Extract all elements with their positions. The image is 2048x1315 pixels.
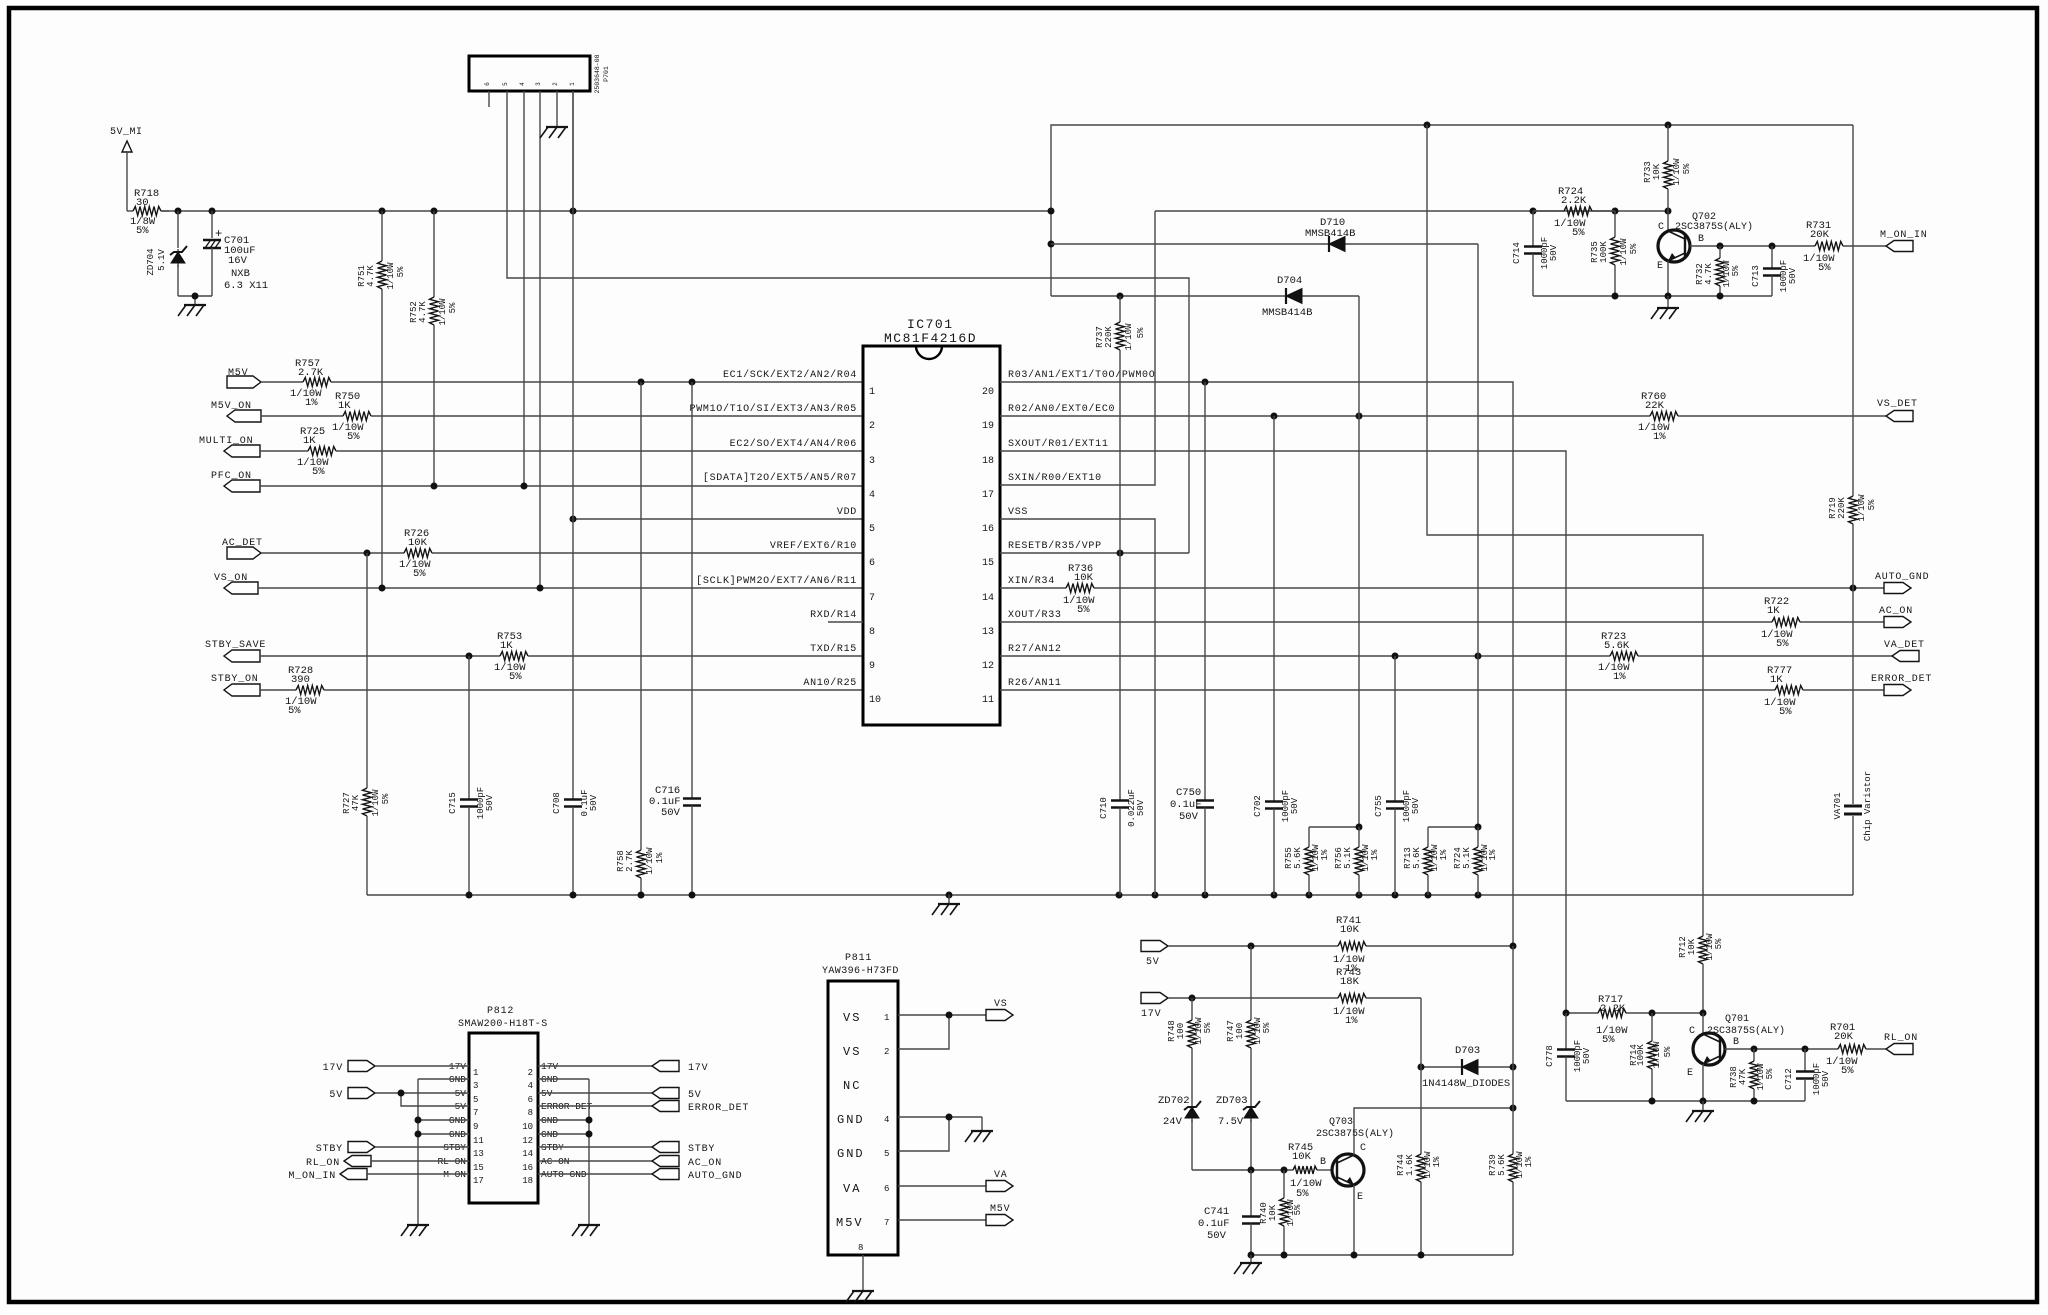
wire P812 5V jog pins 5/7 [401,1093,469,1106]
resistor R735 100K 1/10W 5% [1590,211,1639,296]
ground P812 left [407,1224,429,1226]
svg-text:100K: 100K [1636,1044,1646,1066]
junction 5V bus / C701 [209,208,216,215]
svg-text:10: 10 [522,1122,533,1132]
zener ZD702 24V [1158,1095,1201,1170]
net flag ERROR_DET [1871,674,1932,696]
svg-text:30: 30 [136,197,149,209]
wire top supply bus [1051,125,1853,296]
svg-text:18: 18 [982,456,994,467]
junction VS pins [946,1012,953,1019]
resistor R717 2.2K 1/10W 5% [1596,994,1628,1046]
net flag AC_ON [1879,606,1913,628]
wire Q702 emitter [1667,261,1669,296]
net flag VS_ON [214,573,258,594]
net flag 17V P812 right [538,1061,708,1075]
svg-text:R02/AN0/EXT0/EC0: R02/AN0/EXT0/EC0 [1008,403,1115,415]
svg-text:R27/AN12: R27/AN12 [1008,643,1062,655]
wire Q701 collector supply branch [1427,125,1703,935]
svg-text:VA_DET: VA_DET [1884,640,1925,651]
svg-text:5%: 5% [1136,327,1146,338]
wire P701 pin3 to VS_ON net [539,91,541,588]
junction AC_DET / R727 [364,550,371,557]
junction GND bus x1428 [1425,892,1432,899]
svg-text:50V: 50V [1136,799,1146,816]
resistor R726 10K 1/10W 5% [261,528,863,580]
svg-text:C: C [1689,1026,1695,1037]
svg-text:1/10W: 1/10W [1124,323,1134,351]
svg-text:50V: 50V [1549,244,1559,261]
svg-text:EC2/SO/EXT4/AN4/R06: EC2/SO/EXT4/AN4/R06 [730,438,857,450]
svg-text:VS: VS [994,999,1008,1010]
svg-text:5%: 5% [347,431,360,443]
svg-text:PWM1O/T1O/SI/EXT3/AN3/R05: PWM1O/T1O/SI/EXT3/AN3/R05 [689,403,857,415]
capacitor C702 1000pF 50V [1253,416,1300,895]
svg-text:19: 19 [982,421,994,432]
svg-text:50V: 50V [589,794,599,811]
svg-text:2.7K: 2.7K [625,850,635,872]
svg-text:SXOUT/R01/EXT11: SXOUT/R01/EXT11 [1008,438,1109,450]
svg-text:10K: 10K [1074,572,1094,584]
svg-text:5V: 5V [1146,957,1160,968]
resistor R701 20K 1/10W 5% [1826,1022,1886,1077]
svg-text:47K: 47K [351,794,361,811]
junction pin20 / C750 [1202,379,1209,386]
net flag MULTI_ON [199,436,260,457]
junction left GND pin9 [415,1117,422,1124]
svg-text:5%: 5% [1714,938,1724,949]
svg-text:10K: 10K [1687,938,1697,955]
svg-text:M_ON_IN: M_ON_IN [288,1171,336,1182]
svg-text:47K: 47K [1738,1068,1748,1085]
svg-text:1/10W: 1/10W [1857,494,1867,522]
svg-text:RXD/R14: RXD/R14 [810,609,857,621]
capacitor C755 1000pF 50V [1374,656,1421,895]
wire Q702 collector net [1155,210,1668,212]
svg-text:VREF/EXT6/R10: VREF/EXT6/R10 [770,540,857,552]
svg-text:20K: 20K [1834,1031,1854,1043]
junction GND bus x949 [946,892,953,899]
svg-text:100K: 100K [1599,241,1609,263]
resistor R755 5.6K 1/10W 1% [1284,827,1330,895]
wire P812 right GND pins 4/10/12 [538,1079,589,1224]
net flag RL_ON [1884,1033,1918,1055]
svg-text:AC_ON: AC_ON [1879,606,1913,617]
net flag VA [898,1170,1013,1192]
svg-text:Chip Varistor: Chip Varistor [1863,771,1873,841]
svg-text:VSS: VSS [1008,507,1028,518]
junction 5V bus / ZD704 [175,208,182,215]
svg-text:8: 8 [858,1243,863,1253]
wire IC701 pin8 RXD stub [828,621,863,623]
svg-text:NXB: NXB [231,268,250,280]
svg-text:5%: 5% [1731,265,1741,276]
resistor R738 47K 1/10W 5% [1729,1049,1775,1101]
svg-text:50V: 50V [1788,267,1798,284]
junction 17V / R748 column [1189,995,1196,1002]
svg-text:XIN/R34: XIN/R34 [1008,575,1055,587]
svg-text:220K: 220K [1104,326,1114,348]
resistor R713 5.6K 1/10W 1% [1403,827,1449,895]
wire P701 pin6 stub [488,91,490,107]
resistor R724 5.1K 1/10W 1% [1453,827,1498,895]
svg-text:E: E [1657,261,1663,272]
svg-text:MC81F4216D: MC81F4216D [884,331,977,346]
junction top bus / R733 [1665,122,1672,129]
net flag STBY P812 right [538,1142,715,1156]
junction Q702 collector / R733 [1665,208,1672,215]
svg-text:12: 12 [522,1136,533,1146]
junction GND bus x1274 [1271,892,1278,899]
connector P812 SMAW200-H18T-S [458,1006,548,1203]
svg-text:C714: C714 [1512,242,1522,264]
svg-text:12: 12 [982,661,994,672]
capacitor C701 100uF 16V [203,211,268,296]
svg-text:1/10W: 1/10W [1619,238,1629,266]
svg-text:10K: 10K [1268,1204,1278,1221]
resistor R756 5.1K 1/10W 1% [1334,827,1380,895]
svg-text:4.7K: 4.7K [1704,263,1714,285]
junction 5V jog [398,1090,405,1097]
svg-text:2.2K: 2.2K [1561,195,1587,207]
svg-text:16: 16 [982,524,994,535]
junction VS_ON / R751 [379,585,386,592]
capacitor C708 0.1uF 50V [552,91,599,895]
resistor R732 4.7K 1/10W 5% [1695,246,1741,296]
svg-text:5.1K: 5.1K [1343,847,1353,869]
junction R741 / D703 column [1510,943,1517,950]
wire Q703 base row [1192,1169,1293,1171]
svg-text:ZD702: ZD702 [1158,1095,1190,1107]
svg-text:C702: C702 [1253,795,1263,817]
svg-text:[SDATA]T2O/EXT5/AN5/R07: [SDATA]T2O/EXT5/AN5/R07 [703,472,857,484]
connector P811 YAW396-H73FD [822,953,899,1255]
junction rail Q702 E [1665,293,1672,300]
wire R755/R756 bracket [1309,826,1359,828]
svg-text:5%: 5% [1841,1065,1854,1077]
net flag PFC_ON [211,471,260,492]
svg-text:E: E [1687,1068,1693,1079]
wire 5V bus [161,210,1051,212]
ground Q701 [1692,1110,1714,1112]
junction VDD / C708 column [570,516,577,523]
svg-text:1%: 1% [1345,1015,1358,1027]
ground at P701 pin2 [546,126,568,128]
junction M5V row x641 [638,379,645,386]
wire P701 pin4 to PFC_ON net [523,91,525,486]
svg-text:17V: 17V [323,1063,343,1074]
svg-text:9: 9 [473,1122,478,1132]
svg-text:M5V: M5V [990,1204,1010,1215]
svg-text:1%: 1% [1439,849,1449,860]
svg-text:R03/AN1/EXT1/T0O/PWM0O: R03/AN1/EXT1/T0O/PWM0O [1008,369,1155,381]
svg-text:15: 15 [982,558,994,569]
resistor R744 1.6K 1/10W 1% [1396,1067,1442,1255]
svg-text:5%: 5% [1779,706,1792,718]
net flag AUTO_GND P812 right [538,1169,742,1183]
svg-text:1/10W: 1/10W [1672,158,1682,186]
svg-text:RL_ON: RL_ON [1884,1033,1918,1044]
net flag 5V P812 left [329,1088,469,1102]
svg-text:17V: 17V [1141,1009,1161,1020]
svg-text:1: 1 [869,387,875,398]
junction rail Q703 E [1351,1252,1358,1259]
svg-text:5.6K: 5.6K [1293,847,1303,869]
svg-text:RL_ON: RL_ON [306,1158,340,1169]
junction base row / R740 [1281,1167,1288,1174]
capacitor C714 1000pF 50V [1512,211,1559,296]
svg-text:5%: 5% [1077,604,1090,616]
junction D710 column / bracket [1475,824,1482,831]
wire pin20 PWM0O row [1000,382,1513,946]
junction R738 top [1751,1046,1758,1053]
svg-text:1/10W: 1/10W [645,847,655,875]
svg-text:Q701: Q701 [1725,1014,1749,1025]
svg-text:20K: 20K [1810,229,1830,241]
svg-text:50V: 50V [1411,797,1421,814]
junction PFC_ON / P701 pin4 [521,483,528,490]
svg-text:20: 20 [982,387,994,398]
svg-text:NC: NC [843,1079,861,1093]
svg-text:B: B [1320,1157,1326,1168]
svg-text:C778: C778 [1545,1045,1555,1067]
svg-text:5%: 5% [1203,1022,1213,1033]
resistor R718 30 1/8W 5% [127,188,169,237]
resistor R777 1K 1/10W 5% [1000,665,1884,718]
zener ZD703 7.5V [1216,1095,1260,1170]
svg-text:SMAW200-H18T-S: SMAW200-H18T-S [458,1019,548,1030]
junction D704 column / bracket [1356,824,1363,831]
svg-text:1%: 1% [1488,849,1498,860]
svg-text:1%: 1% [1524,1156,1534,1167]
wire Q701 emitter rail [1566,1100,1805,1102]
svg-text:AC_ON: AC_ON [688,1158,722,1169]
svg-text:13: 13 [982,627,994,638]
resistor R751 4.7K 1/10W 5% [357,211,406,588]
svg-text:4.7K: 4.7K [366,265,376,287]
wire Q703 collector [1354,1108,1515,1155]
ground below C701 [184,304,206,306]
svg-text:P812: P812 [487,1006,514,1017]
resistor R719 220K 1/10W 5% [1828,125,1877,588]
net flag STBY_SAVE [205,640,266,662]
svg-text:P811: P811 [845,953,872,964]
wire Q703 emitter [1353,1185,1355,1255]
capacitor C750 0.1uF 50V [1170,382,1214,895]
ground on GND bus [938,903,960,905]
transistor Q702 2SC3875S(ALY) [1657,211,1753,272]
zener ZD704 5.1V [146,211,187,296]
junction M5V row x692 [689,379,696,386]
resistor R750 1K 1/10W 5% [261,391,863,443]
svg-text:5%: 5% [1682,163,1692,174]
svg-text:1N4148W_DIODES: 1N4148W_DIODES [1422,1078,1510,1090]
svg-text:10K: 10K [1292,1151,1312,1163]
wire R713/R724 bracket [1428,826,1478,828]
resistor R739 5.6K 1/10W 1% [1488,946,1534,1255]
wire P811 VS pins 1/2 [898,1015,986,1049]
junction right GND pin10 [586,1117,593,1124]
capacitor C715 1000pF 50V [448,656,495,895]
svg-text:5V: 5V [688,1090,702,1101]
svg-text:C: C [1658,222,1664,233]
svg-text:5%: 5% [288,705,301,717]
wire ground stub Q701 [1702,1101,1704,1110]
svg-text:3: 3 [869,456,875,467]
svg-text:2.7K: 2.7K [298,367,324,379]
svg-text:5%: 5% [413,568,426,580]
svg-text:2.2K: 2.2K [1600,1003,1626,1015]
svg-text:100: 100 [1235,1023,1245,1039]
junction GND bus x1359 [1356,892,1363,899]
svg-text:5%: 5% [1572,227,1585,239]
wire P811 pin8 to ground [862,1255,864,1290]
svg-text:1K: 1K [1770,674,1783,686]
junction 5V bus / R751 [379,208,386,215]
junction R732 top [1717,243,1724,250]
svg-text:3: 3 [535,82,542,86]
junction PFC_ON / R752 [431,483,438,490]
svg-text:5%: 5% [1629,243,1639,254]
resistor R714 100K 1/10W 5% [1629,1013,1673,1101]
svg-text:7: 7 [884,1218,889,1228]
junction pin12 / C755 [1392,653,1399,660]
svg-text:TXD/R15: TXD/R15 [810,643,857,655]
svg-text:100: 100 [1176,1023,1186,1039]
junction GND bus x1155 [1152,892,1159,899]
svg-text:C755: C755 [1374,795,1384,817]
resistor R758 2.7K 1/10W 1% [616,847,665,895]
wire M5V row drop x641 [640,382,642,850]
svg-text:VDD: VDD [837,507,857,518]
wire Q702 ground stub [1667,296,1669,307]
svg-text:7: 7 [869,593,875,604]
capacitor C713 1000pF 50V [1751,246,1798,296]
wire Q701 base row [1725,1048,1838,1050]
svg-text:6: 6 [528,1095,533,1105]
junction C713 top [1769,243,1776,250]
wire bottom rail Q703 [1251,1254,1513,1256]
junction pin19 / D704 column [1356,413,1363,420]
net flag VS [986,999,1013,1021]
svg-text:14: 14 [982,593,994,604]
svg-text:5%: 5% [1867,499,1877,510]
junction rail C741 [1248,1252,1255,1259]
ground Q703 rail [1240,1262,1262,1264]
svg-text:50V: 50V [1207,1230,1227,1242]
svg-text:5%: 5% [136,225,149,237]
net flag ERROR_DET P812 right [538,1101,749,1115]
svg-text:EC1/SCK/EXT2/AN2/R04: EC1/SCK/EXT2/AN2/R04 [723,369,857,381]
wire ground stub Q703 rail [1250,1255,1252,1262]
wire pin16 VSS down to GND bus [1000,519,1155,895]
svg-text:5%: 5% [1765,1068,1775,1079]
svg-text:C710: C710 [1099,797,1109,819]
diode D703 1N4148W_DIODES [1421,1045,1513,1090]
resistor R736 10K 1/10W 5% [1000,563,1857,616]
resistor R752 4.7K 1/10W 5% [409,211,458,486]
net flag M_ON_IN P812 left [288,1169,469,1183]
svg-text:1%: 1% [655,852,665,863]
svg-text:5%: 5% [381,793,391,804]
svg-text:16: 16 [522,1163,533,1173]
junction VS_ON / P701 pin3 [537,585,544,592]
svg-text:SXIN/R00/EXT10: SXIN/R00/EXT10 [1008,472,1102,484]
IC U1 IC701 MC81F4216D [863,317,1000,725]
junction pin19 / C702 [1271,413,1278,420]
svg-text:M5V: M5V [836,1216,864,1230]
svg-text:10K: 10K [1340,924,1360,936]
junction GND bus x1395 [1392,892,1399,899]
net flag M5V [227,368,261,388]
net flag M5V bottom [898,1204,1013,1226]
wire PFC_ON row [260,485,863,487]
resistor R725 1K 1/10W 5% [260,426,863,478]
wire P701 pin2 to ground [556,91,558,126]
junction D703 left / R744 column [1418,1064,1425,1071]
svg-text:C741: C741 [1204,1206,1229,1218]
net flag AC_DET [222,538,263,559]
junction rail R714 [1649,1098,1656,1105]
svg-text:VA: VA [843,1182,861,1196]
wire Q701 emitter [1702,1064,1704,1101]
svg-text:1: 1 [569,82,576,86]
svg-text:18: 18 [522,1176,533,1186]
svg-text:4: 4 [884,1115,889,1125]
wire P811 GND pins 4/5 [898,1117,982,1151]
svg-text:4: 4 [528,1081,533,1091]
svg-text:18K: 18K [1340,976,1360,988]
junction rail R732 [1717,293,1724,300]
svg-text:1/10W: 1/10W [438,298,448,326]
svg-text:2: 2 [528,1068,533,1078]
resistor R722 1K 1/10W 5% [1000,596,1884,650]
svg-text:ZD704: ZD704 [146,248,156,275]
net flag STBY_ON [211,674,260,696]
svg-text:4: 4 [519,82,526,86]
svg-text:5.6K: 5.6K [1412,847,1422,869]
junction rail Q701 E [1700,1098,1707,1105]
svg-text:ERROR_DET: ERROR_DET [1871,674,1932,685]
svg-text:R26/AN11: R26/AN11 [1008,677,1062,689]
net flag AUTO_GND [1875,572,1929,594]
wire P812 left GND pins 3/9/11 [418,1079,469,1224]
resistor R743 18K 1/10W 1% [1168,967,1421,1027]
svg-text:5.1K: 5.1K [1462,847,1472,869]
resistor R760 22K 1/10W 1% [1000,391,1886,443]
svg-text:2SC3875S(ALY): 2SC3875S(ALY) [1707,1025,1785,1037]
wire R743 output to R744 column [1420,998,1422,1067]
svg-text:ZD703: ZD703 [1216,1095,1248,1107]
net flag AC_ON P812 right [538,1156,722,1170]
net flag VA_DET [1884,640,1925,662]
junction GND bus x1119 [1116,892,1123,899]
svg-text:P701: P701 [603,66,610,82]
svg-text:5%: 5% [448,302,458,313]
svg-text:1%: 1% [305,397,318,409]
net flag 17V P812 left [323,1061,469,1075]
junction Q703 collector / D703 column [1510,1105,1517,1112]
transistor Q703 2SC3875S(ALY) [1316,1117,1394,1203]
svg-text:5%: 5% [1293,1204,1303,1215]
svg-text:16V: 16V [228,255,248,267]
wire D704 column to R756 [1358,296,1360,827]
svg-text:3: 3 [473,1081,478,1091]
svg-text:B: B [1698,234,1704,245]
svg-text:VS: VS [843,1045,861,1059]
svg-text:5%: 5% [1602,1034,1615,1046]
svg-text:24V: 24V [1163,1116,1183,1128]
